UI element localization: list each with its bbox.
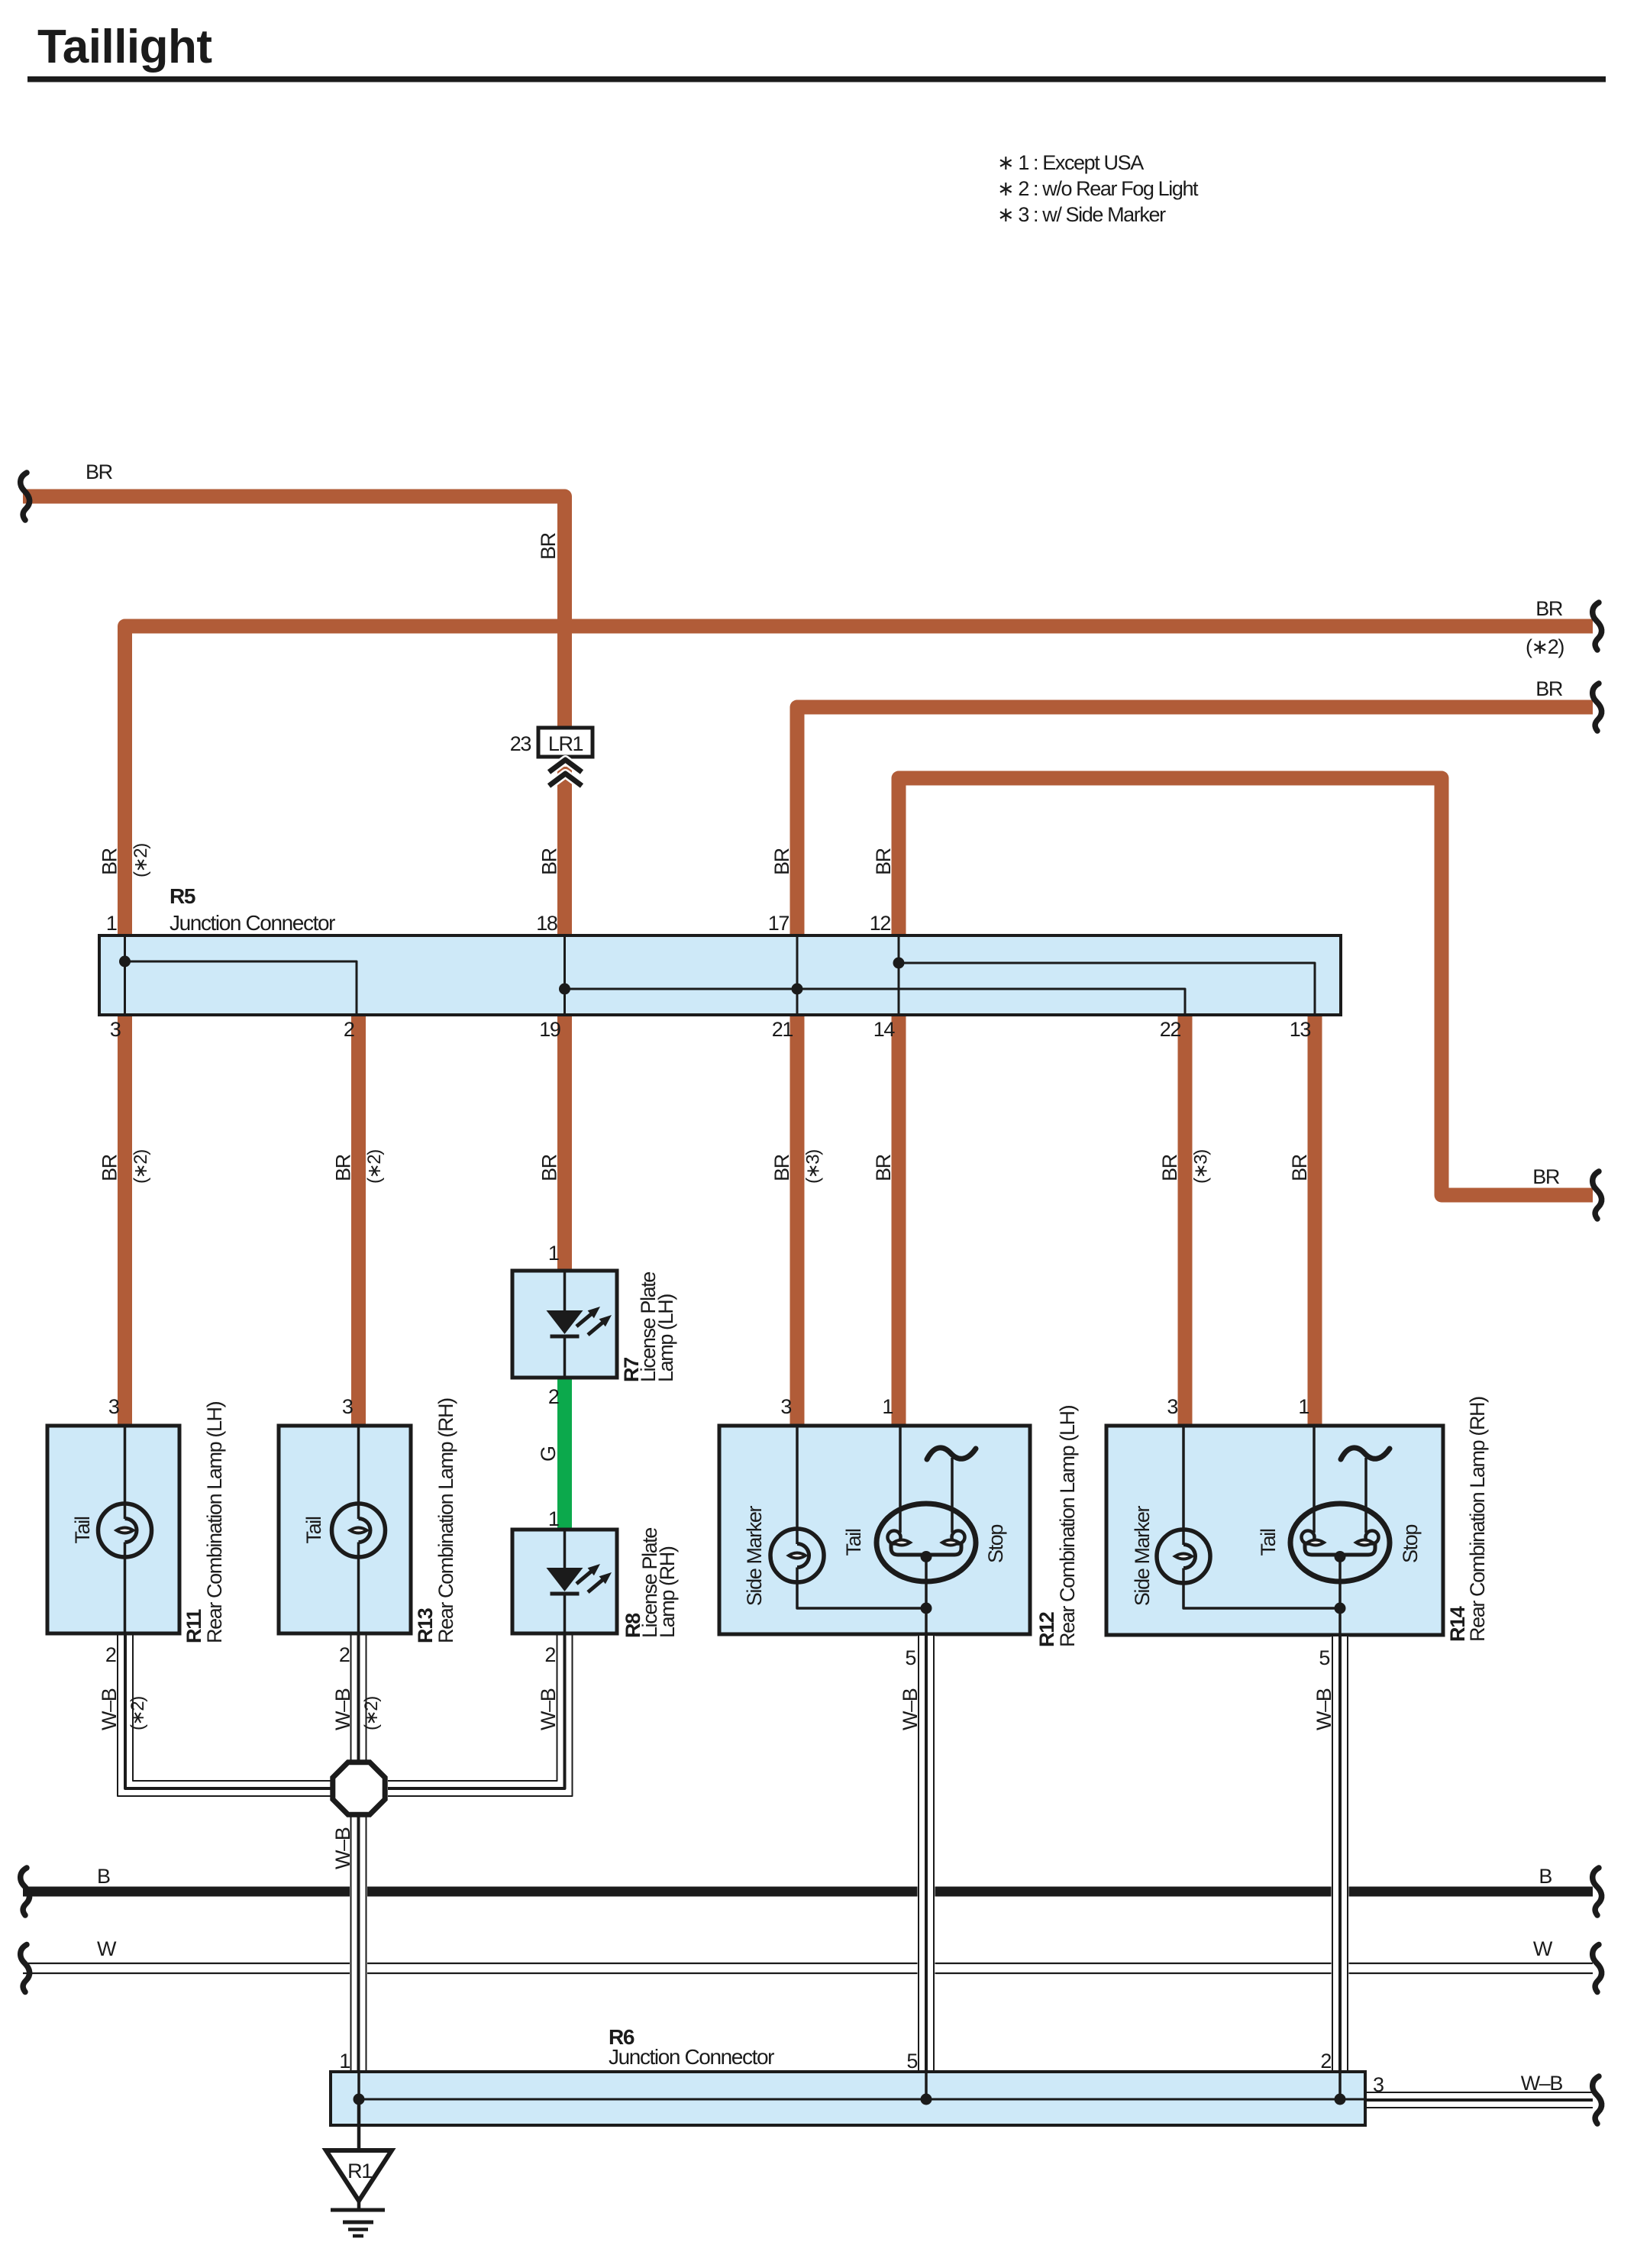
svg-text:3: 3 <box>108 1395 119 1418</box>
R12 side marker bulb <box>770 1427 926 1608</box>
svg-text:LR1: LR1 <box>548 732 583 755</box>
labels W-B under lamps <box>98 1688 1335 1869</box>
title underline rule <box>27 76 1606 82</box>
svg-text:∗ 3 : w/ Side Marker: ∗ 3 : w/ Side Marker <box>997 203 1166 226</box>
R6 pin numbers <box>339 2050 1384 2096</box>
svg-text:BR: BR <box>1535 597 1563 620</box>
svg-text:Junction Connector: Junction Connector <box>170 911 335 935</box>
wire BR R5 pin 19 to R7 pin 1 <box>557 1016 572 1270</box>
svg-text:BR: BR <box>86 460 113 483</box>
wire BR (*2) from R5 pin 1 to right break <box>125 626 1593 935</box>
R8 name <box>622 1528 679 1638</box>
wire BR R5 pin 2 to R13 pin 3 <box>351 1016 366 1425</box>
svg-text:B: B <box>97 1865 110 1888</box>
R13 name <box>414 1398 457 1643</box>
svg-text:(∗2): (∗2) <box>364 1150 385 1184</box>
svg-text:2: 2 <box>339 1643 350 1666</box>
R11 tail bulb <box>98 1427 152 1632</box>
svg-text:Tail: Tail <box>302 1517 325 1543</box>
svg-text:Rear Combination Lamp (LH): Rear Combination Lamp (LH) <box>1056 1405 1079 1647</box>
ground R1 (triangle) <box>326 2150 392 2201</box>
R5 pin numbers top <box>106 912 891 935</box>
svg-text:2: 2 <box>548 1385 559 1408</box>
svg-text:(∗2): (∗2) <box>131 1150 151 1184</box>
svg-text:Stop: Stop <box>984 1525 1007 1563</box>
svg-text:R13: R13 <box>414 1607 437 1643</box>
legend notes <box>997 151 1199 226</box>
svg-text:Lamp (RH): Lamp (RH) <box>656 1546 679 1638</box>
svg-text:W–B: W–B <box>1521 2072 1563 2095</box>
svg-text:W–B: W–B <box>537 1688 560 1730</box>
svg-text:5: 5 <box>1319 1646 1329 1669</box>
wire W-B from R12 pin 5 to R6 pin 5 <box>918 1636 935 2070</box>
svg-text:BR: BR <box>98 848 121 875</box>
svg-text:BR: BR <box>538 1154 561 1181</box>
svg-text:3: 3 <box>342 1395 353 1418</box>
junction connector R6 (box) <box>331 2072 1365 2125</box>
svg-text:1: 1 <box>882 1395 893 1418</box>
wire W-B from R8 pin 2 to splice <box>388 1633 573 1796</box>
R12 tail/stop double bulb <box>877 1427 976 1633</box>
svg-text:1: 1 <box>548 1242 559 1265</box>
svg-text:BR: BR <box>1532 1165 1560 1188</box>
chevron arrows below LR1 <box>549 760 582 786</box>
svg-text:19: 19 <box>539 1018 560 1041</box>
svg-text:BR: BR <box>1535 677 1563 700</box>
svg-text:3: 3 <box>1373 2073 1384 2096</box>
R14 tail/stop double bulb <box>1290 1427 1390 1633</box>
wire BR from power (top left) to LR1 <box>23 496 565 726</box>
svg-text:G: G <box>537 1446 560 1462</box>
svg-text:1: 1 <box>548 1507 559 1530</box>
R12 name <box>1035 1405 1079 1647</box>
svg-text:Tail: Tail <box>71 1517 94 1543</box>
lamp pin numbers top <box>108 1242 1309 1418</box>
wire BR from R5 pin 17 to right break <box>797 707 1593 935</box>
wire W-B from R14 pin 5 to R6 pin 2 <box>1332 1636 1349 2070</box>
wire break marks <box>21 473 1602 2124</box>
wire BR below LR1 to R5 pin 18 <box>557 767 572 935</box>
svg-text:22: 22 <box>1160 1018 1181 1041</box>
R7 name <box>620 1272 677 1382</box>
svg-text:(∗3): (∗3) <box>803 1150 824 1184</box>
wire BR R5 pin 21 to R12 pin 3 <box>790 1016 805 1425</box>
wire BR R5 pin 13 to R14 pin 1 <box>1308 1016 1322 1425</box>
wire BR R5 pin 3 to R11 pin 3 <box>118 1016 132 1425</box>
svg-text:(∗2): (∗2) <box>131 844 151 877</box>
svg-text:2: 2 <box>544 1643 555 1666</box>
svg-text:14: 14 <box>873 1018 896 1041</box>
wire BR R5 pin 22 to R14 pin 3 <box>1178 1016 1193 1425</box>
svg-text:W–B: W–B <box>1313 1688 1335 1730</box>
labels BR above R5 <box>98 844 896 877</box>
svg-text:18: 18 <box>536 912 557 935</box>
svg-text:17: 17 <box>768 912 789 935</box>
svg-text:2: 2 <box>105 1643 116 1666</box>
svg-text:B: B <box>1539 1865 1552 1888</box>
svg-text:W–B: W–B <box>899 1688 922 1730</box>
svg-text:2: 2 <box>344 1018 354 1041</box>
svg-text:1: 1 <box>1298 1395 1309 1418</box>
svg-text:R12: R12 <box>1035 1612 1058 1647</box>
wire from R6 pin 1 to ground R1 <box>357 2099 361 2150</box>
svg-text:Rear Combination Lamp (RH): Rear Combination Lamp (RH) <box>1466 1397 1489 1642</box>
svg-text:Stop: Stop <box>1399 1525 1422 1563</box>
svg-text:∗ 2 : w/o Rear Fog Light: ∗ 2 : w/o Rear Fog Light <box>997 177 1199 200</box>
svg-text:1: 1 <box>339 2050 350 2073</box>
svg-text:BR: BR <box>332 1154 355 1181</box>
svg-text:Side Marker: Side Marker <box>743 1506 766 1607</box>
svg-text:R5: R5 <box>170 884 195 908</box>
R5 pin numbers bottom <box>110 1018 1311 1041</box>
wire G from R7 pin 2 to R8 pin 1 <box>557 1379 572 1529</box>
svg-text:3: 3 <box>780 1395 791 1418</box>
svg-text:BR: BR <box>770 1154 793 1181</box>
svg-text:Lamp (LH): Lamp (LH) <box>654 1294 677 1382</box>
svg-text:Rear Combination Lamp (LH): Rear Combination Lamp (LH) <box>203 1401 226 1643</box>
svg-text:3: 3 <box>110 1018 121 1041</box>
wire W-B (*2) from R11 pin 2 to splice <box>118 1633 331 1796</box>
R7 LED symbol <box>547 1272 612 1376</box>
svg-text:13: 13 <box>1290 1018 1311 1041</box>
R6 internal bus <box>354 2072 1364 2105</box>
svg-text:21: 21 <box>772 1018 793 1041</box>
splice (octagon) <box>333 1762 385 1814</box>
svg-text:5: 5 <box>906 2050 917 2073</box>
svg-text:23: 23 <box>510 732 531 755</box>
R14 name <box>1446 1397 1489 1642</box>
svg-text:(∗3): (∗3) <box>1191 1150 1212 1184</box>
svg-text:BR: BR <box>872 848 895 875</box>
svg-text:BR: BR <box>537 532 560 560</box>
svg-text:W–B: W–B <box>331 1688 354 1730</box>
R14 Rear Combination Lamp RH (box) <box>1106 1426 1443 1635</box>
svg-text:(∗2): (∗2) <box>361 1697 382 1730</box>
svg-text:W–B: W–B <box>331 1827 354 1869</box>
R8 License Plate Lamp RH (box) <box>512 1530 617 1633</box>
lamp pin numbers bottom <box>105 1643 1330 1669</box>
wire BR from R5 pin 12 around right side to lower right break <box>899 778 1593 1195</box>
svg-text:5: 5 <box>905 1646 915 1669</box>
svg-text:∗ 1 : Except USA: ∗ 1 : Except USA <box>997 151 1144 174</box>
svg-text:1: 1 <box>106 912 117 935</box>
R8 LED symbol <box>547 1530 612 1633</box>
svg-text:BR: BR <box>1158 1154 1181 1181</box>
svg-text:W–B: W–B <box>98 1688 121 1730</box>
svg-text:12: 12 <box>870 912 891 935</box>
svg-text:BR: BR <box>872 1154 895 1181</box>
svg-text:2: 2 <box>1320 2050 1331 2073</box>
wire B ground trunk <box>23 1887 1593 1897</box>
svg-text:Taillight: Taillight <box>37 21 212 73</box>
svg-text:R1: R1 <box>347 2160 372 2182</box>
svg-text:Tail: Tail <box>842 1529 865 1556</box>
svg-text:BR: BR <box>770 848 793 875</box>
svg-text:W: W <box>97 1937 117 1960</box>
wire W trunk <box>23 1963 1593 1973</box>
svg-text:W: W <box>1533 1937 1553 1960</box>
svg-text:BR: BR <box>98 1154 121 1181</box>
R11 name <box>182 1401 226 1643</box>
R13 Rear Combination Lamp RH (box) <box>279 1426 411 1633</box>
svg-text:Tail: Tail <box>1257 1529 1280 1556</box>
wire W-B (*2) from R13 pin 2 to splice <box>350 1633 352 1762</box>
wire BR R5 pin 14 to R12 pin 1 <box>892 1016 906 1425</box>
R5 internal wiring <box>119 937 1315 1013</box>
bulb labels inside boxes <box>71 1506 1422 1607</box>
svg-text:BR: BR <box>538 848 561 875</box>
svg-text:R11: R11 <box>182 1609 205 1643</box>
svg-text:BR: BR <box>1288 1154 1311 1181</box>
wire W-B from splice down to R6 pin 1 <box>350 1817 367 2070</box>
R11 Rear Combination Lamp LH (box) <box>47 1426 179 1633</box>
ground symbol hatch <box>331 2201 385 2236</box>
connector LR1 pin 23 (box) <box>538 728 593 757</box>
R14 side marker bulb <box>1157 1427 1340 1608</box>
svg-text:Side Marker: Side Marker <box>1131 1506 1154 1607</box>
labels BR between R5 and lamps <box>98 1150 1312 1184</box>
R13 tail bulb <box>332 1427 386 1632</box>
junction connector R5 (box) <box>99 935 1341 1015</box>
R12 Rear Combination Lamp LH (box) <box>719 1426 1030 1634</box>
svg-text:3: 3 <box>1167 1395 1177 1418</box>
svg-text:Rear Combination Lamp (RH): Rear Combination Lamp (RH) <box>434 1398 457 1643</box>
svg-text:(∗2): (∗2) <box>128 1697 148 1730</box>
svg-text:(∗2): (∗2) <box>1526 635 1564 658</box>
R7 License Plate Lamp LH (box) <box>512 1271 617 1378</box>
svg-text:Junction Connector: Junction Connector <box>609 2045 774 2069</box>
wire W-B from R6 pin 3 to right break <box>1365 2092 1593 2108</box>
